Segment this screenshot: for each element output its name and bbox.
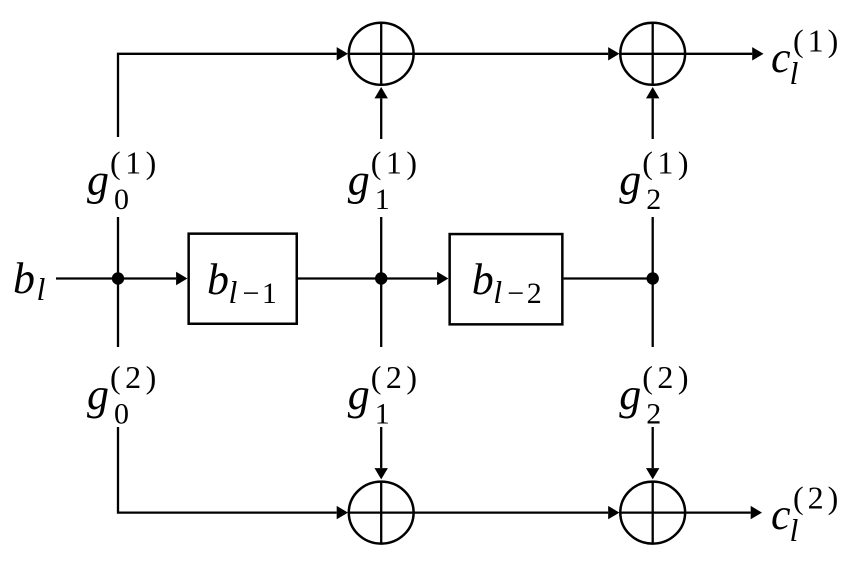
svg-text:c: c <box>771 490 791 539</box>
wire: below label g1(2) down into adder U3 (arrowhead down) <box>380 427 382 468</box>
svg-text:l: l <box>229 274 238 310</box>
wire: below label g2(2) down into adder U4 (arrowhead down) <box>652 427 654 468</box>
label b_{l-2} inside B2 <box>472 255 545 310</box>
adder U4 (XOR circle bottom-right) <box>620 482 685 544</box>
svg-text:2: 2 <box>646 398 661 431</box>
svg-text:g: g <box>87 370 109 419</box>
svg-text:(2): (2) <box>793 480 842 516</box>
wire: node A to register B1 (with arrowhead) <box>118 277 176 279</box>
wire: node C up stub to label g2(1) <box>652 217 654 279</box>
svg-text:g: g <box>619 156 641 205</box>
wire: node B to register B2 (with arrowhead) <box>381 277 437 279</box>
svg-text:(1): (1) <box>793 23 842 59</box>
register box B1 <box>189 234 297 324</box>
wire: input lead into node A <box>56 277 118 279</box>
wire: register B1 to node B <box>298 277 381 279</box>
wire: adder U1 to adder U2 (with arrowhead) <box>413 53 608 55</box>
svg-text:b: b <box>207 255 229 304</box>
svg-text:b: b <box>472 255 494 304</box>
adder U1 (XOR circle top-middle) <box>349 23 414 85</box>
svg-text:1: 1 <box>375 183 390 216</box>
register box B2 <box>450 234 563 324</box>
wire: above label g2(1) up into adder U2 (arrowhead up) <box>652 98 654 139</box>
svg-text:(1): (1) <box>110 145 161 181</box>
label g0(2) <box>87 359 161 431</box>
svg-text:2: 2 <box>646 183 661 216</box>
svg-text:−2: −2 <box>507 277 544 310</box>
svg-text:(2): (2) <box>371 359 422 395</box>
wire: node B down stub to label g1(2) <box>380 279 382 348</box>
label b_{l-1} inside B1 <box>207 255 279 310</box>
svg-text:0: 0 <box>114 398 129 431</box>
label g1(1) <box>348 145 422 217</box>
node A (input junction dot) <box>112 272 124 284</box>
wire: register B2 to node C <box>564 277 653 279</box>
svg-text:l: l <box>37 271 46 307</box>
label g0(1) <box>87 145 161 217</box>
svg-text:−1: −1 <box>243 277 280 310</box>
svg-text:g: g <box>619 370 641 419</box>
wire: node A down stub to label g0(2) <box>117 279 119 348</box>
svg-text:c: c <box>771 33 791 82</box>
wire: above label g1(1) up into adder U1 (arrowhead up) <box>380 98 382 139</box>
label g2(1) <box>619 145 693 217</box>
wire: adder U2 output arrow to c_l(1) <box>686 53 752 55</box>
svg-text:g: g <box>348 156 370 205</box>
label b_l (input) <box>13 254 46 307</box>
label c_l(2) (output 2) <box>771 480 842 549</box>
wire: node C down stub to label g2(2) <box>652 279 654 348</box>
wire: node A upper stub below label g0(1) <box>117 217 119 279</box>
svg-text:l: l <box>790 55 799 91</box>
svg-text:1: 1 <box>375 398 390 431</box>
wire: node A up to top-left corner then right to adder U1 (with arrowhead) <box>118 54 337 137</box>
node B (middle junction dot) <box>375 272 387 284</box>
svg-text:l: l <box>493 274 502 310</box>
svg-text:(2): (2) <box>110 359 161 395</box>
wire: adder U4 output arrow to c_l(2) <box>686 511 751 513</box>
adder U3 (XOR circle bottom-middle) <box>349 482 414 544</box>
wire: node B up stub to label g1(1) <box>380 217 382 279</box>
svg-text:g: g <box>348 370 370 419</box>
svg-text:g: g <box>87 156 109 205</box>
svg-text:(2): (2) <box>642 359 693 395</box>
svg-text:(1): (1) <box>642 145 693 181</box>
wire: adder U3 to adder U4 (with arrowhead) <box>413 511 608 513</box>
node C (right junction dot) <box>647 272 659 284</box>
label g2(2) <box>619 359 693 431</box>
svg-text:0: 0 <box>114 183 129 216</box>
svg-text:l: l <box>790 512 799 548</box>
adder U2 (XOR circle top-right) <box>620 23 685 85</box>
svg-text:b: b <box>13 254 35 303</box>
label c_l(1) (output 1) <box>771 23 842 92</box>
wire: below label g0(2) down to bottom-left corner then right to adder U3 (with arrowhead) <box>118 427 337 513</box>
label g1(2) <box>348 359 422 431</box>
svg-text:(1): (1) <box>371 145 422 181</box>
